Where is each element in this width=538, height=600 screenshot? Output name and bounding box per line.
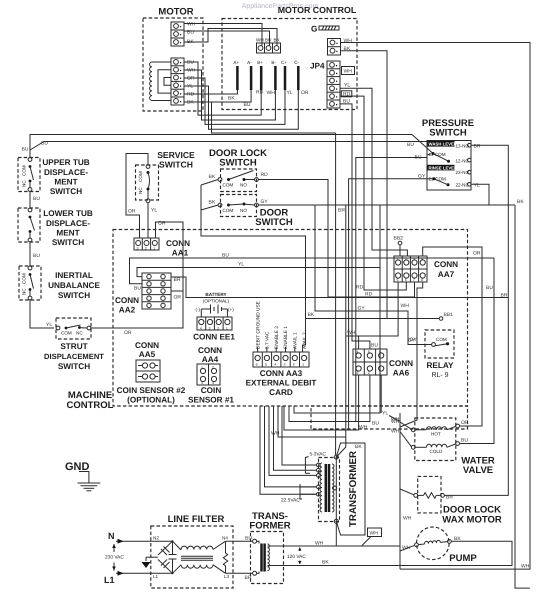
wire OR AA1 pin1 xyxy=(156,222,184,291)
svg-text:L1: L1 xyxy=(153,574,159,579)
svg-text:CONN: CONN xyxy=(434,260,458,269)
svg-text:SERVICE: SERVICE xyxy=(157,150,195,160)
pump P1 xyxy=(415,527,478,564)
svg-text:AA4: AA4 xyxy=(202,355,219,364)
svg-text:WH: WH xyxy=(359,425,368,431)
svg-text:STRUT: STRUT xyxy=(60,342,87,351)
wire motor BK to MC xyxy=(184,29,277,46)
svg-text:SWITCH: SWITCH xyxy=(429,128,467,139)
svg-text:NC: NC xyxy=(22,288,27,295)
svg-text:OR: OR xyxy=(158,221,166,227)
svg-text:BU: BU xyxy=(486,285,493,291)
label 22.5VAC xyxy=(281,484,316,504)
svg-text:COM: COM xyxy=(22,273,27,284)
svg-text:WH: WH xyxy=(391,419,400,425)
wire MC WH right loop xyxy=(341,43,531,570)
svg-text:COM: COM xyxy=(436,337,447,342)
wire BU pressure 11-COM left xyxy=(356,154,431,422)
wire WH AA7 to AA6 xyxy=(346,282,398,336)
svg-text:BU: BU xyxy=(461,438,468,444)
connector AA1 xyxy=(134,238,190,258)
svg-text:SWITCH: SWITCH xyxy=(219,158,257,169)
svg-text:CARD: CARD xyxy=(269,388,293,397)
svg-text:WH: WH xyxy=(187,22,196,28)
svg-text:8: 8 xyxy=(421,278,423,282)
svg-text:BATTERY: BATTERY xyxy=(205,292,226,297)
svg-text:L1: L1 xyxy=(104,575,115,585)
connector AA7 xyxy=(394,256,458,282)
ground tab G xyxy=(311,25,339,34)
wire RD door lock to AA7 xyxy=(258,180,414,298)
switch S1 upper tub xyxy=(18,158,90,197)
svg-text:1: 1 xyxy=(379,371,381,375)
wire OR AA7 to water valve xyxy=(423,247,482,426)
svg-text:BU: BU xyxy=(134,286,141,292)
svg-text:A-: A- xyxy=(247,60,252,65)
svg-text:YL: YL xyxy=(46,322,52,328)
svg-text:YL: YL xyxy=(382,411,388,417)
wire motor WH to MC xyxy=(184,24,262,46)
water valve WV1 xyxy=(411,418,495,476)
svg-text:1: 1 xyxy=(153,247,155,251)
svg-text:BK: BK xyxy=(228,96,235,102)
svg-text:AA5: AA5 xyxy=(139,350,156,359)
connector MC 2-pin xyxy=(328,38,353,55)
wires WH to water valve xyxy=(400,422,412,429)
svg-text:BR: BR xyxy=(474,144,481,150)
svg-text:MENT: MENT xyxy=(56,229,79,238)
svg-text:OR: OR xyxy=(128,209,136,215)
svg-text:6: 6 xyxy=(256,363,258,367)
svg-text:YL: YL xyxy=(287,90,293,96)
svg-text:BB1: BB1 xyxy=(444,312,454,318)
svg-text:N: N xyxy=(108,531,115,541)
svg-text:RL- 9: RL- 9 xyxy=(431,372,448,379)
svg-text:RINSE LEVEL: RINSE LEVEL xyxy=(429,165,458,170)
node BB1 xyxy=(439,312,453,320)
svg-text:WH: WH xyxy=(347,330,356,336)
svg-text:5: 5 xyxy=(368,350,370,354)
svg-text:BU: BU xyxy=(22,147,29,153)
svg-text:22.5VAC: 22.5VAC xyxy=(281,498,300,504)
wire GY pressure 21-COM left xyxy=(349,179,432,430)
svg-text:BK: BK xyxy=(355,444,362,450)
switch S6 door lock xyxy=(209,148,269,192)
wire motor BU to bar B+ xyxy=(184,62,261,115)
svg-text:L3: L3 xyxy=(224,574,230,579)
svg-text:AVAIL 1: AVAIL 1 xyxy=(293,332,299,349)
svg-text:CONN: CONN xyxy=(115,296,139,305)
mains N L1 xyxy=(104,531,173,585)
wire motor BU to MC xyxy=(184,31,270,46)
svg-text:BU: BU xyxy=(372,421,379,427)
wire BU second top xyxy=(30,142,427,151)
wire YL pressure down-left xyxy=(294,184,489,413)
wire BR pressure to wax motor xyxy=(444,145,508,495)
svg-text:CONN: CONN xyxy=(135,341,159,350)
svg-text:N4: N4 xyxy=(222,536,228,541)
svg-text:5: 5 xyxy=(265,363,267,367)
svg-text:WH: WH xyxy=(402,545,411,551)
wire OR service xyxy=(126,154,148,239)
svg-text:CONTROL: CONTROL xyxy=(67,400,114,411)
svg-text:AA7: AA7 xyxy=(438,270,455,279)
svg-text:SWITCH: SWITCH xyxy=(159,160,193,170)
svg-text:OR: OR xyxy=(174,295,182,301)
svg-text:2: 2 xyxy=(145,247,147,251)
wire BU left chain top xyxy=(30,135,412,158)
svg-text:11-COM: 11-COM xyxy=(429,152,446,157)
svg-text:SWITCH: SWITCH xyxy=(58,362,90,371)
svg-text:4: 4 xyxy=(274,363,276,367)
switch S5 service xyxy=(136,150,196,203)
wire YL long AA2 xyxy=(137,268,380,277)
wire AA6 down WH xyxy=(284,375,359,430)
svg-text:CONN: CONN xyxy=(198,346,222,355)
svg-text:1: 1 xyxy=(302,363,304,367)
svg-text:BU: BU xyxy=(41,141,48,147)
svg-text:WH: WH xyxy=(370,531,379,537)
svg-text:COM: COM xyxy=(22,165,27,176)
wire BK door switches common xyxy=(201,180,218,186)
svg-text:BU: BU xyxy=(222,253,229,259)
svg-text:1: 1 xyxy=(226,327,228,331)
svg-text:AVAIL 2: AVAIL 2 xyxy=(302,332,308,349)
wire BK transformer out to pump xyxy=(274,541,513,565)
svg-text:BU: BU xyxy=(187,30,194,36)
wire WH to pump xyxy=(400,545,415,551)
svg-text:NO: NO xyxy=(240,183,247,188)
switch S3 inertial unbalance xyxy=(19,266,100,300)
svg-text:SWITCH: SWITCH xyxy=(52,238,84,247)
svg-text:(+): (+) xyxy=(228,307,234,312)
svg-text:SWITCH: SWITCH xyxy=(255,217,293,228)
motor control U-MC xyxy=(222,5,357,110)
svg-text:MOTOR CONTROL: MOTOR CONTROL xyxy=(278,5,357,15)
svg-text:COM: COM xyxy=(61,331,72,336)
svg-text:WH: WH xyxy=(403,516,412,522)
svg-text:AA2: AA2 xyxy=(119,306,136,315)
svg-text:BU: BU xyxy=(244,102,251,108)
svg-text:BB2: BB2 xyxy=(394,236,404,242)
svg-text:3: 3 xyxy=(413,257,415,261)
svg-text:CONN: CONN xyxy=(389,359,413,368)
svg-text:G: G xyxy=(311,25,317,34)
svg-text:3: 3 xyxy=(284,363,286,367)
svg-text:5-3VAC: 5-3VAC xyxy=(310,452,327,458)
wire OR strut to AA2 xyxy=(91,291,183,328)
svg-text:CONN AA3: CONN AA3 xyxy=(260,369,303,378)
motor M1 xyxy=(143,7,203,112)
svg-text:B-: B- xyxy=(271,60,276,65)
svg-text:OR: OR xyxy=(461,420,469,426)
svg-text:GY: GY xyxy=(408,338,416,344)
wire transformer secondary bottom xyxy=(335,523,337,546)
wire WH transformer out xyxy=(274,545,401,547)
svg-text:INERTIAL: INERTIAL xyxy=(55,271,93,280)
svg-text:(OPTIONAL): (OPTIONAL) xyxy=(203,299,230,304)
svg-text:DISPLACEMENT: DISPLACEMENT xyxy=(44,352,104,361)
svg-text:CONN: CONN xyxy=(166,239,190,248)
svg-text:WAX MOTOR: WAX MOTOR xyxy=(442,515,502,526)
svg-text:120 VAC: 120 VAC xyxy=(287,554,306,560)
svg-text:FORMER: FORMER xyxy=(249,521,290,532)
connector AA4 xyxy=(188,346,234,405)
svg-text:RD: RD xyxy=(256,90,264,96)
line filter FL1 xyxy=(142,514,253,588)
wire BU between S2 S3 xyxy=(29,242,31,266)
svg-text:WH: WH xyxy=(315,541,324,547)
svg-text:MOTOR: MOTOR xyxy=(158,7,193,18)
svg-text:CONN EE1: CONN EE1 xyxy=(193,333,235,342)
svg-text:RELAY: RELAY xyxy=(427,361,455,370)
svg-text:WH: WH xyxy=(391,429,400,435)
svg-text:NC: NC xyxy=(76,331,83,336)
wire motor RD to bar A+ xyxy=(184,90,237,94)
svg-text:COM: COM xyxy=(223,208,234,213)
svg-text:6: 6 xyxy=(379,350,381,354)
motor drive bars A+ A- B+ B- C+ C- xyxy=(228,60,309,108)
svg-text:COIN: COIN xyxy=(201,386,222,395)
wire JP4 RD down xyxy=(340,96,406,290)
wire JP4 YL down xyxy=(340,88,407,256)
svg-text:BU: BU xyxy=(371,343,378,349)
svg-text:YL: YL xyxy=(344,83,350,89)
svg-text:3: 3 xyxy=(137,247,139,251)
connector EE1 xyxy=(193,317,235,342)
svg-text:YL: YL xyxy=(474,183,480,189)
svg-text:BU: BU xyxy=(245,536,252,542)
svg-text:WH: WH xyxy=(256,38,264,43)
wire BU to water valve xyxy=(460,258,495,444)
svg-text:A+: A+ xyxy=(233,60,239,65)
wire trunk feed xyxy=(212,102,336,133)
svg-text:BK: BK xyxy=(517,199,524,205)
svg-text:COLD: COLD xyxy=(430,449,443,454)
svg-text:BU: BU xyxy=(265,38,271,43)
svg-text:2: 2 xyxy=(405,257,407,261)
svg-text:WASH LEVEL: WASH LEVEL xyxy=(429,142,457,147)
svg-text:BK: BK xyxy=(209,174,216,180)
svg-text:BU: BU xyxy=(33,196,40,202)
wire WH2 transformer feed xyxy=(278,406,346,437)
svg-text:COIN SENSOR #2: COIN SENSOR #2 xyxy=(117,386,186,395)
svg-text:230 VAC: 230 VAC xyxy=(105,555,124,561)
svg-text:JP4: JP4 xyxy=(310,62,325,71)
svg-text:GY: GY xyxy=(358,306,366,312)
svg-text:ENABLE 1: ENABLE 1 xyxy=(283,326,289,349)
svg-text:4: 4 xyxy=(200,327,202,331)
svg-text:4: 4 xyxy=(357,350,359,354)
svg-text:NC: NC xyxy=(22,180,27,187)
svg-text:C+: C+ xyxy=(281,60,287,65)
label WH flag xyxy=(362,528,382,546)
svg-text:4: 4 xyxy=(421,257,423,261)
pressure switch S8 xyxy=(407,118,481,190)
svg-text:AA1: AA1 xyxy=(172,249,189,258)
svg-text:VALVE: VALVE xyxy=(463,465,493,476)
connector AA6 xyxy=(353,338,416,378)
svg-text:TRANSFORMER: TRANSFORMER xyxy=(348,451,359,527)
wire AA6 down to WH valve common xyxy=(380,375,382,413)
svg-text:UPPER TUB: UPPER TUB xyxy=(42,158,89,167)
svg-text:BR: BR xyxy=(338,208,345,214)
machine control board outline xyxy=(67,230,468,430)
wire long vertical to transformer xyxy=(335,133,337,455)
svg-text:WH: WH xyxy=(401,303,410,309)
wire BU long AA2 xyxy=(130,258,495,284)
svg-text:N2: N2 xyxy=(153,536,159,541)
svg-text:NO: NO xyxy=(240,208,247,213)
svg-text:SWITCH: SWITCH xyxy=(50,187,82,196)
svg-text:LINE FILTER: LINE FILTER xyxy=(168,514,225,525)
svg-text:BR: BR xyxy=(446,495,453,501)
ground GND xyxy=(65,461,100,491)
svg-text:2: 2 xyxy=(217,327,219,331)
svg-text:BK: BK xyxy=(209,200,216,206)
svg-text:(-): (-) xyxy=(196,307,201,312)
svg-text:B+: B+ xyxy=(257,60,263,65)
wire BK right edge xyxy=(489,204,515,206)
svg-text:LOWER TUB: LOWER TUB xyxy=(43,209,93,218)
svg-text:BU: BU xyxy=(407,142,414,148)
svg-text:BK: BK xyxy=(308,312,315,318)
wire motor YL to bar C- xyxy=(184,86,298,129)
svg-text:WH: WH xyxy=(344,69,353,75)
svg-text:1: 1 xyxy=(201,366,203,370)
svg-text:HOT: HOT xyxy=(431,432,441,437)
svg-text:SWITCH: SWITCH xyxy=(58,291,90,300)
svg-text:GY: GY xyxy=(261,199,269,205)
connector AA3 external debit xyxy=(246,301,317,397)
svg-text:COM: COM xyxy=(223,183,234,188)
transformer T2 bottom xyxy=(249,511,290,584)
svg-text:2: 2 xyxy=(368,371,370,375)
wire BK to transformer xyxy=(336,205,346,457)
svg-text:OR: OR xyxy=(124,330,132,336)
svg-text:RD: RD xyxy=(365,292,373,298)
svg-text:EXTERNAL DEBIT: EXTERNAL DEBIT xyxy=(246,379,317,388)
wire MC BK down xyxy=(341,51,440,319)
wire motor WH to bar B- xyxy=(184,70,275,120)
svg-text:BK: BK xyxy=(454,536,461,542)
wire YL service xyxy=(147,203,149,238)
svg-text:MENT: MENT xyxy=(54,178,77,187)
svg-text:OR: OR xyxy=(301,90,309,96)
transformer T1 xyxy=(317,443,366,535)
svg-text:WH: WH xyxy=(271,431,280,437)
svg-text:BU: BU xyxy=(33,253,40,259)
wire WH to wax motor xyxy=(400,489,414,495)
svg-text:COM: COM xyxy=(138,171,143,182)
svg-text:DEBIT GROUND USE: DEBIT GROUND USE xyxy=(255,301,261,349)
connector MC 3-pin horizontal xyxy=(256,38,281,54)
wire BU between S1 S2 xyxy=(29,191,31,208)
svg-text:WH: WH xyxy=(521,564,530,570)
wire BR AA2 long xyxy=(171,277,508,298)
connector AA5 xyxy=(117,341,186,405)
svg-text:NC: NC xyxy=(138,187,143,194)
svg-text:5.7 VAC: 5.7 VAC xyxy=(265,331,271,349)
svg-text:3: 3 xyxy=(357,371,359,375)
connector AA2 xyxy=(115,273,181,315)
svg-text:RD: RD xyxy=(356,285,364,291)
svg-text:7: 7 xyxy=(413,278,415,282)
svg-text:SENSOR #1: SENSOR #1 xyxy=(188,396,234,405)
svg-text:(OPTIONAL): (OPTIONAL) xyxy=(127,396,175,405)
svg-text:C-: C- xyxy=(294,60,299,65)
svg-text:AA6: AA6 xyxy=(393,369,410,378)
svg-text:BK: BK xyxy=(322,560,329,566)
wire motor BK to bar A- xyxy=(184,90,251,102)
svg-text:ENABLE 2: ENABLE 2 xyxy=(274,326,280,349)
svg-text:UNBALANCE: UNBALANCE xyxy=(48,281,100,290)
svg-text:3: 3 xyxy=(209,327,211,331)
switch S2 lower tub xyxy=(18,208,93,247)
switch S4 strut displacement xyxy=(44,318,104,371)
svg-text:4: 4 xyxy=(212,381,214,385)
label 120 VAC xyxy=(287,548,306,565)
wire YL to strut xyxy=(30,300,54,328)
svg-text:YL: YL xyxy=(151,208,157,214)
connector motor 6-pin xyxy=(171,58,196,106)
switch S7 door xyxy=(209,195,293,229)
svg-text:PUMP: PUMP xyxy=(449,553,477,564)
svg-text:3: 3 xyxy=(201,381,203,385)
connector motor 3-pin xyxy=(171,22,196,47)
svg-text:BR: BR xyxy=(174,277,181,283)
wire JP4 BU down xyxy=(340,104,370,349)
svg-text:DISPLACE-: DISPLACE- xyxy=(44,168,88,177)
wire AA6 down BU xyxy=(289,375,370,422)
wire motor OR to bar C+ xyxy=(184,78,285,124)
wire GY door to relay xyxy=(258,205,431,345)
connector JP4 xyxy=(310,61,355,108)
node BB2 xyxy=(394,236,404,257)
battery B1 (optional) xyxy=(196,292,235,317)
door lock wax motor WX1 xyxy=(414,476,502,525)
svg-text:RD: RD xyxy=(261,172,269,178)
svg-text:5: 5 xyxy=(397,278,399,282)
relay RL-9 xyxy=(425,330,454,379)
svg-text:1: 1 xyxy=(397,257,399,261)
svg-text:YL: YL xyxy=(238,262,244,268)
wires primary feeds xyxy=(260,406,316,494)
svg-text:OR: OR xyxy=(473,251,481,257)
svg-text:6: 6 xyxy=(405,278,407,282)
label 5-3VAC xyxy=(305,452,326,474)
svg-text:2: 2 xyxy=(212,366,214,370)
motor winding xyxy=(150,62,171,101)
svg-text:WH: WH xyxy=(267,90,276,96)
svg-text:DISPLACE-: DISPLACE- xyxy=(46,219,90,228)
svg-text:2: 2 xyxy=(293,363,295,367)
